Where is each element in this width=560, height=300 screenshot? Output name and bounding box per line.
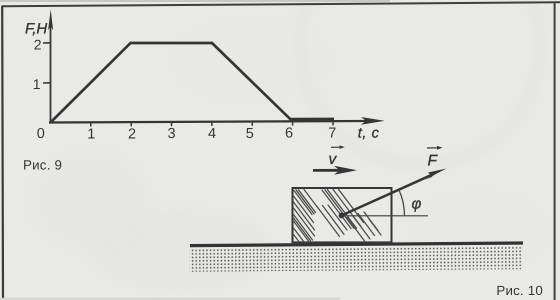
- svg-text:5: 5: [246, 126, 254, 142]
- svg-text:0: 0: [37, 126, 45, 142]
- svg-text:1: 1: [87, 127, 95, 143]
- svg-text:v: v: [329, 151, 338, 168]
- svg-text:6: 6: [285, 126, 293, 142]
- svg-text:7: 7: [328, 126, 336, 142]
- svg-text:F: F: [428, 153, 439, 170]
- svg-text:F,Н: F,Н: [25, 21, 47, 38]
- svg-text:1: 1: [33, 76, 41, 92]
- svg-text:t, c: t, c: [358, 126, 380, 142]
- svg-text:Рис. 9: Рис. 9: [23, 157, 62, 172]
- svg-text:3: 3: [167, 126, 175, 142]
- svg-text:φ: φ: [412, 196, 422, 213]
- svg-text:Рис. 10: Рис. 10: [496, 283, 543, 298]
- svg-text:4: 4: [208, 126, 216, 142]
- svg-text:2: 2: [34, 37, 42, 53]
- svg-text:2: 2: [128, 127, 136, 143]
